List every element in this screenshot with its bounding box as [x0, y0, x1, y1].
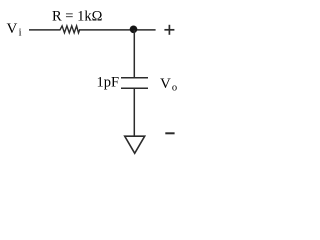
- wire: junction down to capacitor C: [133, 30, 135, 78]
- svg-text:R = 1kΩ: R = 1kΩ: [52, 9, 103, 25]
- polarity minus sign: [165, 132, 174, 134]
- svg-text:Vo: Vo: [160, 76, 177, 94]
- wire: Vi terminal to resistor R: [29, 29, 61, 31]
- wire: capacitor C to ground: [133, 88, 135, 136]
- ground: [125, 136, 145, 153]
- junction node at top of capacitor: [130, 26, 138, 34]
- polarity plus sign: [164, 25, 174, 35]
- svg-text:1pF: 1pF: [97, 75, 120, 91]
- resistor R: [60, 26, 80, 33]
- input node label Vi: [7, 21, 22, 39]
- svg-text:Vi: Vi: [7, 21, 22, 39]
- capacitor C (1pF) plates: [121, 78, 148, 89]
- wire: resistor R to output terminal: [79, 29, 156, 31]
